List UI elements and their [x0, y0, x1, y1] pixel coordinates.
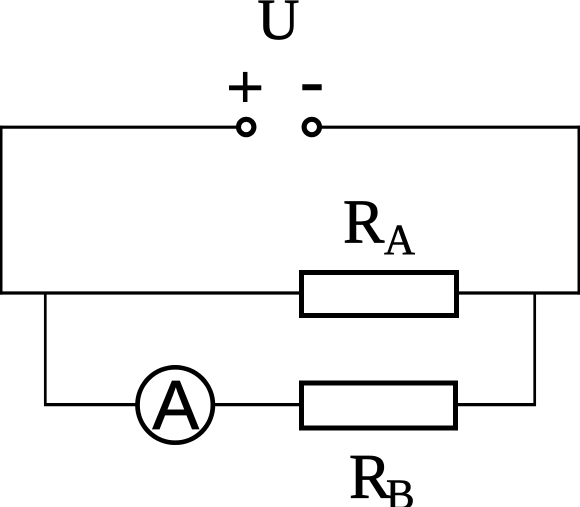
wire: lower loop horizontal through ammeter and RB [44, 403, 536, 406]
resistor RA [302, 273, 457, 316]
svg-text:A: A [152, 366, 199, 444]
svg-text:A: A [384, 217, 415, 264]
wire: left drop to lower loop [44, 292, 47, 407]
wire: left rail vertical [0, 126, 3, 295]
svg-text:R: R [343, 188, 385, 256]
wire: top-left from left rail to + terminal [0, 126, 237, 129]
svg-text:R: R [349, 442, 391, 507]
label - polarity [302, 84, 321, 90]
wire: bottom of upper loop through RA [0, 291, 580, 294]
label + polarity [229, 72, 261, 102]
svg-text:B: B [386, 472, 415, 507]
wire: right rail vertical [578, 126, 580, 295]
svg-text:U: U [258, 0, 300, 52]
wire: top-right from - terminal to right rail [322, 126, 580, 129]
ammeter A1 circle [138, 367, 213, 442]
label RB [349, 442, 415, 507]
label RA [343, 188, 415, 263]
terminal - (right circle) [304, 119, 319, 134]
resistor RB [302, 383, 456, 428]
wire: right drop to lower loop [533, 292, 536, 407]
terminal + (left circle) [239, 119, 254, 134]
